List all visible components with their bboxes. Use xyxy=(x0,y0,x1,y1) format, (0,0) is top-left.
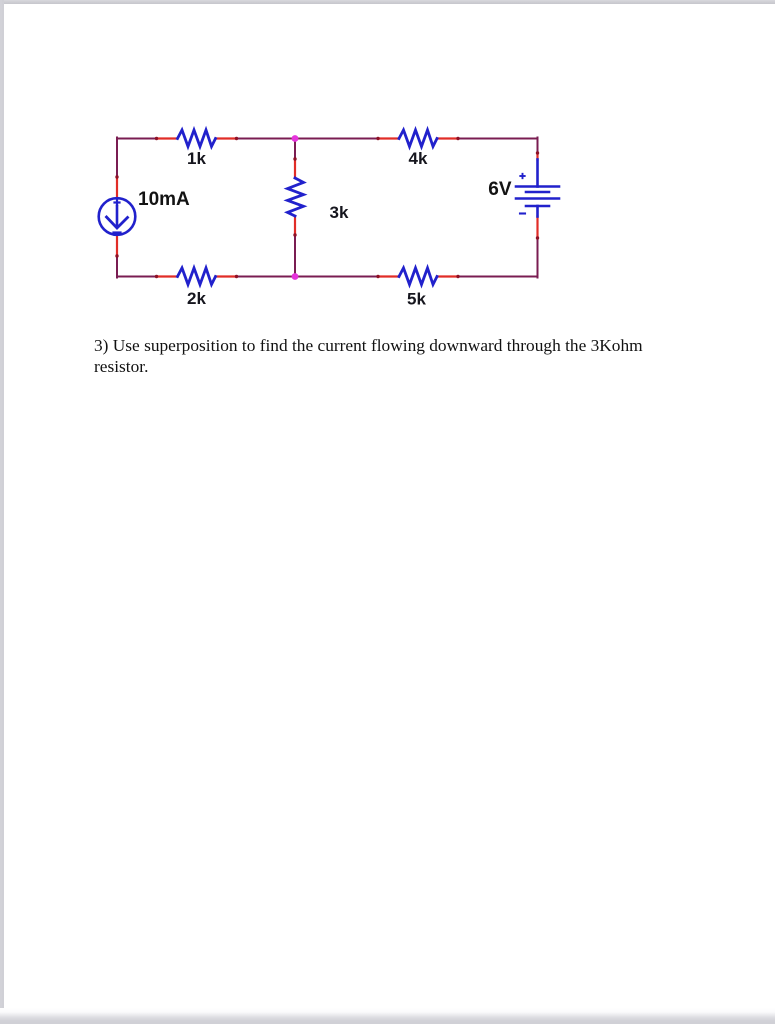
wire bottom-left segment xyxy=(117,276,157,278)
wire top-left segment xyxy=(117,138,157,140)
wire right side upper segment xyxy=(537,138,539,154)
node junction dot bottom xyxy=(292,273,299,280)
wire middle branch upper segment xyxy=(294,139,296,160)
wire right side lower segment xyxy=(537,238,539,278)
svg-text:2k: 2k xyxy=(187,289,206,308)
wire bottom node-to-R5 segment xyxy=(295,276,378,278)
wire top-right segment xyxy=(458,138,538,140)
resistor R3 3k (vertical) xyxy=(288,157,304,236)
wire left side upper segment xyxy=(116,138,118,178)
resistor R2 2k xyxy=(155,268,238,285)
resistor R4 4k xyxy=(376,130,459,147)
current source I1 10mA xyxy=(99,175,136,257)
svg-text:1k: 1k xyxy=(187,149,206,168)
question text xyxy=(94,336,654,377)
wire top node-to-R4 segment xyxy=(295,138,378,140)
svg-text:5k: 5k xyxy=(407,290,426,309)
node junction dot top xyxy=(292,135,299,142)
battery V1 6V xyxy=(516,151,559,239)
resistor R5 5k xyxy=(376,268,459,285)
svg-text:10mA: 10mA xyxy=(138,189,190,210)
svg-text:6V: 6V xyxy=(488,179,512,200)
wire bottom-right segment xyxy=(458,276,538,278)
wire middle branch lower segment xyxy=(294,235,296,277)
page bottom shadow band xyxy=(0,1008,775,1024)
svg-text:3k: 3k xyxy=(330,203,349,222)
svg-text:4k: 4k xyxy=(409,149,428,168)
wire bottom-middle segment (R2 to node) xyxy=(237,276,296,278)
wire left side lower segment xyxy=(116,256,118,278)
resistor R1 1k xyxy=(155,130,238,147)
page top shadow band xyxy=(0,0,775,4)
wire top-middle segment (R1 to node) xyxy=(237,138,296,140)
page left shadow band xyxy=(0,0,4,1024)
